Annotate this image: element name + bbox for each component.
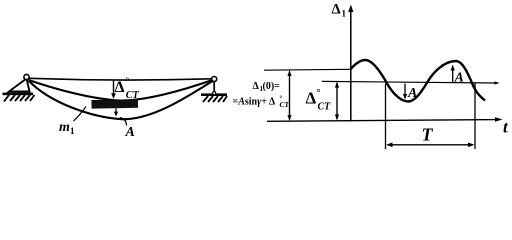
static deflection arrow (down) [113,80,115,96]
right support roller dot [213,92,216,95]
T extension line right [474,84,476,150]
lower amplitude curve (below mass) [29,81,213,120]
t axis [267,120,499,122]
left support ground hatch [3,93,35,102]
Delta1(0) dimension arrow [289,72,291,120]
svg-text:CT: CT [126,90,140,101]
svg-text:Δ: Δ [253,81,260,92]
T extension line left [385,84,387,150]
svg-text:T: T [422,125,434,145]
right support post [213,81,215,94]
T dimension arrow [388,144,473,146]
svg-text:CT: CT [318,102,332,113]
svg-text:A: A [407,86,417,101]
svg-text:Δ: Δ [306,89,317,108]
right support pin circle [212,77,217,82]
left support triangle [9,79,30,92]
vibration curve [351,60,486,102]
svg-text:Δ: Δ [115,79,125,96]
svg-text:Δ: Δ [332,2,341,18]
svg-text:A: A [125,125,135,140]
svg-text:°: ° [317,88,321,99]
beam chord line [29,78,212,80]
svg-text:CT: CT [280,100,290,109]
svg-text:°: ° [126,76,130,86]
leader to A (left) [120,118,127,126]
amplitude arrow at peak [452,68,454,82]
right support ground hatch [201,93,227,102]
amplitude arrow below mass [115,109,117,114]
svg-text:t: t [503,118,509,137]
svg-text:=Asinγ+ Δ: =Asinγ+ Δ [233,97,276,108]
leader from m1 [74,107,87,122]
Delta1 axis [350,8,352,122]
amplitude arrow at trough [404,84,406,97]
svg-text:m: m [59,120,70,135]
mass m1 block [91,99,138,108]
equilibrium level line [322,81,497,83]
static deflection curve (through mass) [29,80,213,101]
svg-text:A: A [454,70,464,85]
svg-text:1: 1 [342,9,347,19]
left support pin circle [24,74,29,79]
svg-text:1: 1 [70,126,75,136]
initial level line Delta1(0) [264,68,351,71]
Delta_CT dimension arrow [336,83,338,119]
svg-text:(0)=: (0)= [263,81,281,92]
